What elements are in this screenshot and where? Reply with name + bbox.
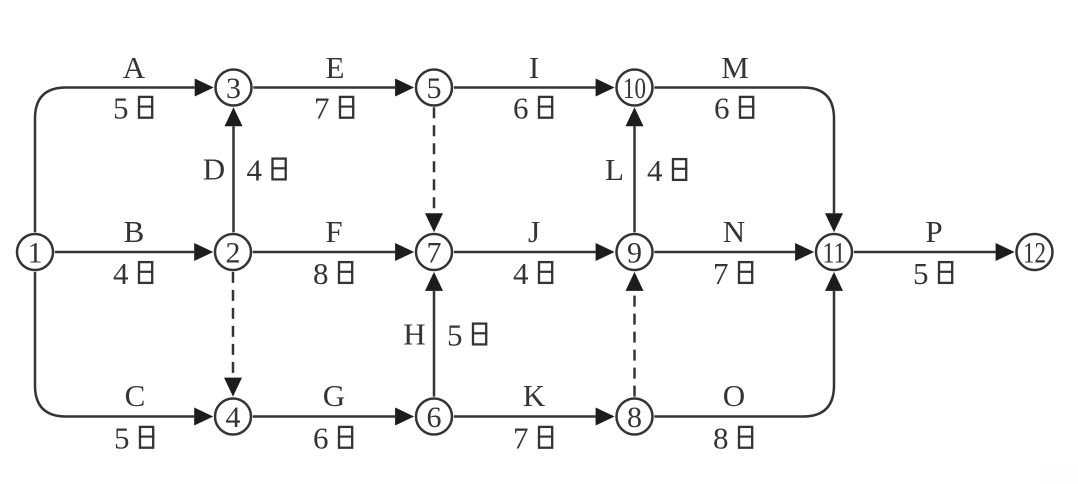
arrowhead K into node 8: [596, 408, 615, 426]
svg-text:7: 7: [713, 256, 729, 291]
node 1 (event circle): [17, 234, 53, 270]
svg-text:10: 10: [623, 72, 646, 105]
svg-text:7: 7: [427, 236, 442, 269]
svg-text:C: C: [125, 378, 146, 413]
svg-text:O: O: [723, 378, 745, 413]
svg-text:7: 7: [513, 421, 529, 456]
arrowhead F into node 7: [395, 243, 414, 261]
wire: dummy dependency dashed from 8 up to 9: [633, 291, 636, 397]
wire: activity O path 8 to 11 (rounded corner): [654, 291, 834, 417]
wire: activity A path 1 to 3 (rounded corner): [35, 88, 195, 233]
svg-text:8: 8: [713, 421, 729, 456]
svg-text:4: 4: [113, 256, 129, 291]
arrowhead C into node 4: [194, 408, 213, 426]
node 7 (event circle): [416, 234, 452, 270]
node 3 (event circle): [216, 70, 252, 106]
arrowhead J into node 9: [596, 243, 615, 261]
arrowhead N into node 11: [795, 243, 814, 261]
svg-text:9: 9: [627, 236, 642, 269]
svg-text:4: 4: [247, 152, 263, 187]
arrowhead B into node 2: [194, 243, 213, 261]
node 5 (event circle): [416, 70, 452, 106]
svg-text:8: 8: [627, 401, 642, 434]
svg-text:5: 5: [913, 256, 929, 291]
svg-text:12: 12: [1023, 236, 1046, 269]
wire: activity N from 9 to 11: [654, 251, 795, 254]
arrowhead dummy into node 9 bottom: [626, 272, 644, 291]
wire: activity I from 5 to 10: [454, 86, 596, 89]
faint watermark remnant bottom-right: [1040, 464, 1078, 484]
wire: activity M path 10 to 11 (rounded corner): [654, 88, 834, 214]
wire: dummy dependency dashed from 2 down to 4: [232, 272, 235, 378]
node 8 (event circle): [617, 399, 653, 435]
wire: activity H from 6 up to 7: [433, 291, 436, 397]
svg-text:J: J: [528, 214, 540, 249]
wire: activity K from 6 to 8: [454, 415, 596, 418]
svg-text:2: 2: [226, 236, 241, 269]
svg-text:L: L: [605, 152, 624, 187]
arrowhead A into node 3: [195, 79, 214, 97]
wire: activity C path 1 to 4 (rounded corner): [35, 272, 194, 417]
svg-text:5: 5: [113, 91, 129, 126]
node 2 (event circle): [215, 234, 251, 270]
wire: activity P from 11 to 12: [854, 251, 996, 254]
svg-text:B: B: [124, 214, 145, 249]
arrowhead M into node 11 top: [825, 213, 843, 232]
svg-text:K: K: [523, 378, 546, 413]
wire: dummy dependency dashed from 5 down to 7: [433, 107, 436, 213]
node 10 (event circle): [617, 70, 653, 106]
svg-text:F: F: [325, 214, 342, 249]
svg-text:E: E: [326, 50, 345, 85]
svg-text:6: 6: [427, 401, 442, 434]
node 9 (event circle): [617, 234, 653, 270]
svg-text:5: 5: [114, 421, 130, 456]
svg-text:H: H: [403, 317, 425, 352]
svg-text:4: 4: [513, 256, 529, 291]
svg-text:11: 11: [823, 236, 846, 269]
svg-text:4: 4: [226, 401, 241, 434]
node 4 (event circle): [215, 399, 251, 435]
wire: activity D from 2 up to 3: [232, 126, 235, 232]
wire: activity J from 7 to 9: [454, 251, 596, 254]
svg-text:N: N: [723, 214, 745, 249]
svg-text:4: 4: [647, 153, 663, 188]
svg-text:G: G: [323, 378, 345, 413]
arrowhead L into node 10 bottom: [626, 107, 644, 126]
node 6 (event circle): [416, 399, 452, 435]
svg-text:1: 1: [28, 236, 43, 269]
arrowhead D into node 3 bottom: [225, 107, 243, 126]
svg-text:P: P: [925, 214, 942, 249]
svg-text:5: 5: [427, 72, 442, 105]
svg-text:7: 7: [314, 91, 330, 126]
arrowhead I into node 10: [596, 79, 615, 97]
svg-text:A: A: [123, 50, 146, 85]
arrowhead O into node 11 bottom: [825, 272, 843, 291]
arrowhead H into node 7 bottom: [425, 272, 443, 291]
arrowhead G into node 6: [395, 408, 414, 426]
svg-text:M: M: [721, 50, 749, 85]
svg-text:3: 3: [226, 72, 241, 105]
svg-text:8: 8: [313, 256, 329, 291]
node 12 (event circle): [1017, 234, 1053, 270]
arrowhead dummy into node 7 top: [425, 213, 443, 232]
svg-text:I: I: [529, 50, 539, 85]
arrowhead dummy into node 4 top: [224, 378, 242, 397]
wire: activity F from 2 to 7: [253, 251, 395, 254]
wire: activity L from 9 up to 10: [633, 126, 636, 232]
svg-text:6: 6: [313, 421, 329, 456]
svg-text:5: 5: [447, 317, 463, 352]
svg-text:6: 6: [513, 91, 529, 126]
arrowhead E into node 5: [395, 79, 414, 97]
svg-text:D: D: [203, 152, 225, 187]
wire: activity G from 4 to 6: [253, 415, 395, 418]
svg-text:6: 6: [714, 91, 730, 126]
wire: activity E from 3 to 5: [253, 86, 395, 89]
node 11 (event circle): [816, 234, 852, 270]
wire: activity B from 1 to 2: [55, 251, 194, 254]
arrowhead P into node 12: [996, 243, 1015, 261]
